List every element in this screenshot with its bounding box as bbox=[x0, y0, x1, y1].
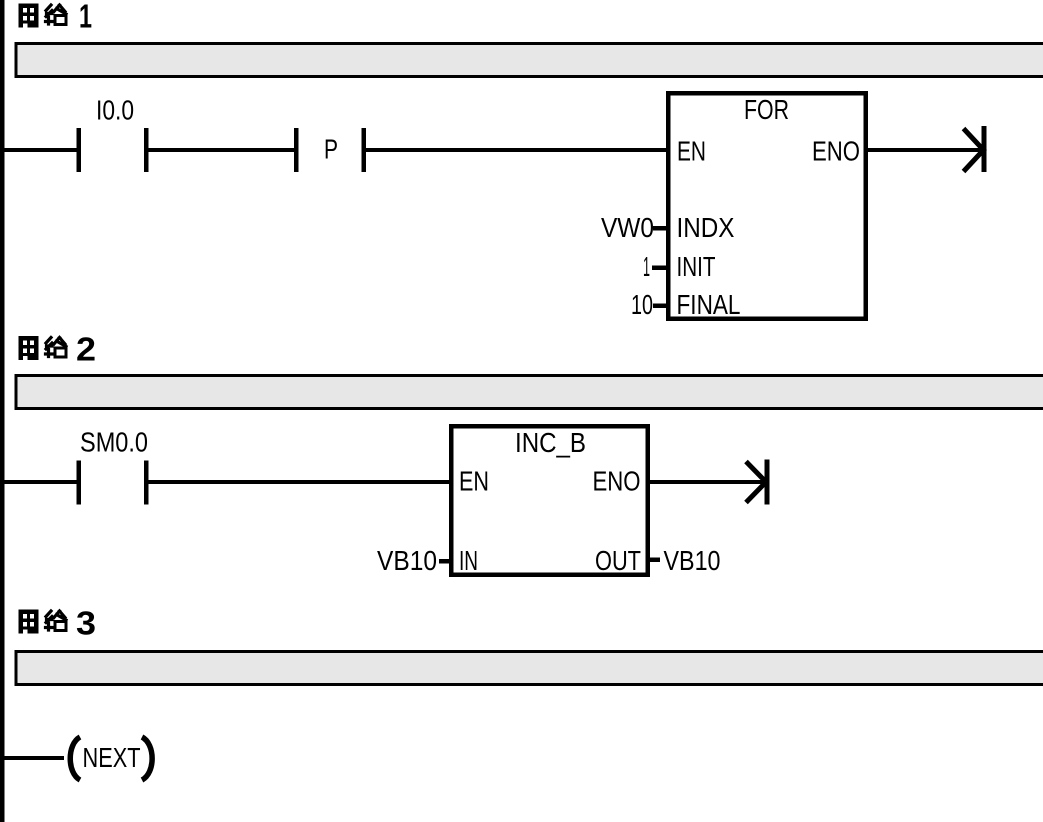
network 3 comment bar bbox=[16, 652, 1043, 685]
continuation arrow net2 bbox=[765, 460, 770, 505]
continuation arrow net1 bbox=[982, 126, 987, 172]
svg-text:NEXT: NEXT bbox=[83, 742, 141, 773]
network 2 title 网络 2 bbox=[19, 336, 67, 360]
svg-text:IN: IN bbox=[459, 545, 478, 576]
svg-text:FINAL: FINAL bbox=[677, 289, 741, 320]
svg-text:I0.0: I0.0 bbox=[96, 95, 134, 126]
network 1 comment bar bbox=[16, 44, 1043, 77]
pin IN bbox=[439, 559, 449, 564]
svg-text:1: 1 bbox=[79, 0, 92, 35]
svg-text:INC_B: INC_B bbox=[515, 427, 586, 458]
svg-text:VW0: VW0 bbox=[601, 212, 654, 243]
svg-text:1: 1 bbox=[643, 251, 650, 282]
pin OUT bbox=[650, 558, 660, 563]
svg-text:EN: EN bbox=[459, 466, 489, 497]
pin INIT bbox=[652, 266, 666, 271]
wire I0.0 to P bbox=[149, 148, 295, 152]
pin FINAL bbox=[653, 304, 666, 309]
box INC_B bbox=[451, 426, 648, 575]
svg-text:OUT: OUT bbox=[595, 545, 641, 576]
contact SM0.0 bbox=[77, 461, 82, 505]
svg-text:ENO: ENO bbox=[593, 466, 641, 497]
network 1 title 网络 1 bbox=[19, 4, 67, 28]
contact I0.0 bbox=[77, 128, 82, 172]
wire FOR to arrow bbox=[868, 148, 982, 152]
coil NEXT bbox=[70, 737, 80, 780]
svg-text:EN: EN bbox=[677, 136, 706, 167]
power rail (left bus bar) bbox=[0, 0, 5, 822]
svg-text:INIT: INIT bbox=[677, 251, 716, 282]
wire rail to NEXT coil bbox=[4, 756, 64, 760]
svg-text:3: 3 bbox=[76, 605, 96, 642]
wire rail to contact SM0.0 bbox=[4, 480, 77, 484]
svg-text:INDX: INDX bbox=[677, 212, 735, 243]
pin INDX bbox=[653, 226, 666, 231]
svg-text:ENO: ENO bbox=[812, 136, 860, 167]
network 2 comment bar bbox=[16, 376, 1043, 409]
glyph 络 bbox=[46, 5, 67, 24]
wire INC_B to arrow bbox=[650, 480, 765, 484]
svg-text:2: 2 bbox=[76, 331, 96, 368]
contact P (positive edge) bbox=[294, 128, 299, 172]
svg-text:10: 10 bbox=[631, 289, 653, 320]
svg-text:VB10: VB10 bbox=[377, 545, 437, 576]
wire rail to contact I0.0 bbox=[4, 148, 77, 152]
svg-text:P: P bbox=[324, 134, 338, 165]
wire P to FOR box bbox=[366, 148, 666, 152]
box FOR bbox=[668, 93, 866, 319]
glyph 网 bbox=[19, 4, 39, 28]
network 3 title 网络 3 bbox=[19, 610, 67, 634]
svg-text:SM0.0: SM0.0 bbox=[80, 427, 148, 458]
wire SM0.0 to INC_B bbox=[149, 480, 450, 484]
svg-text:FOR: FOR bbox=[744, 94, 789, 125]
svg-text:VB10: VB10 bbox=[664, 545, 721, 576]
